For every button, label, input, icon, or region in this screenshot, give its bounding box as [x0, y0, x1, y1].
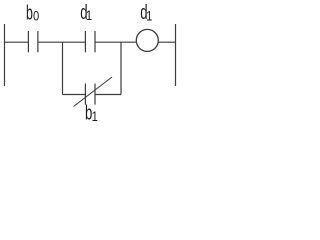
svg-text:1: 1: [92, 109, 98, 124]
NC contact b1 slash: [74, 77, 113, 107]
coil d1 circle: [136, 29, 158, 51]
NC contact b1 right bar: [94, 84, 96, 105]
branch left vertical wire: [62, 42, 64, 94]
NC contact b1 left bar: [84, 84, 86, 105]
wire contact d1 to coil: [95, 41, 136, 43]
right power rail: [175, 24, 177, 86]
wire contact b0 to contact d1: [38, 41, 86, 43]
contact b0 left bar: [27, 31, 29, 52]
branch bottom wire right segment: [95, 94, 121, 96]
svg-text:1: 1: [86, 8, 92, 23]
label b0: [26, 2, 39, 25]
branch bottom wire left segment: [63, 94, 86, 96]
label b1: [85, 102, 98, 124]
contact d1 right bar: [94, 31, 96, 52]
svg-text:0: 0: [33, 8, 39, 23]
label d1 (coil): [140, 1, 152, 23]
label d1 (contact): [80, 1, 92, 23]
wire rail to contact b0: [5, 41, 29, 43]
branch right vertical wire: [120, 42, 122, 94]
wire coil to right rail: [158, 41, 175, 43]
left power rail: [4, 24, 6, 86]
svg-text:1: 1: [146, 8, 152, 23]
contact b0 right bar: [37, 31, 39, 52]
svg-text:b: b: [26, 2, 33, 25]
contact d1 left bar: [84, 31, 86, 52]
